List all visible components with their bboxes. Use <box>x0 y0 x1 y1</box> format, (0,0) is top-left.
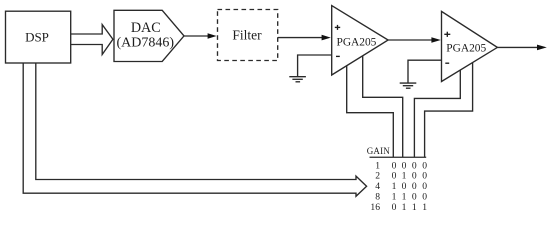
svg-text:1: 1 <box>392 181 397 192</box>
gain wire D <box>425 63 473 158</box>
svg-text:(AD7846): (AD7846) <box>117 36 175 51</box>
svg-text:1: 1 <box>402 171 407 182</box>
ground wire 1 <box>298 55 332 76</box>
svg-text:0: 0 <box>422 181 427 192</box>
svg-text:16: 16 <box>370 202 380 213</box>
svg-text:0: 0 <box>402 160 407 171</box>
DAC box (pentagon) <box>114 10 184 61</box>
gain table row: gain 8 <box>375 192 427 203</box>
ground 2 <box>400 82 417 84</box>
gain wire C <box>414 70 460 157</box>
svg-text:0: 0 <box>412 181 417 192</box>
gain wire A <box>347 66 394 158</box>
svg-text:0: 0 <box>392 160 397 171</box>
svg-text:1: 1 <box>375 160 380 171</box>
filter box (dashed) <box>218 10 278 61</box>
gain table row: gain 4 <box>375 181 427 192</box>
op-amp PGA1 <box>332 6 388 75</box>
wire Filter to PGA1 <box>278 37 323 39</box>
PGA2 plus <box>444 33 450 35</box>
wire DAC to Filter <box>184 35 210 37</box>
svg-text:8: 8 <box>375 192 380 203</box>
output wire <box>497 46 539 48</box>
svg-text:0: 0 <box>412 192 417 203</box>
svg-text:DSP: DSP <box>25 29 49 44</box>
arrowhead Filter to PGA1 <box>322 35 331 41</box>
svg-text:1: 1 <box>392 192 397 203</box>
block arrow DSP to DAC <box>71 25 113 55</box>
svg-text:PGA205: PGA205 <box>446 43 486 55</box>
gain table rule <box>370 156 427 158</box>
DSP box <box>6 11 71 63</box>
svg-text:0: 0 <box>392 202 397 213</box>
output arrowhead <box>537 45 547 51</box>
svg-text:0: 0 <box>412 160 417 171</box>
svg-text:1: 1 <box>412 202 417 213</box>
arrowhead PGA1 to PGA2 <box>431 37 440 43</box>
wire PGA1 to PGA2 <box>388 39 433 41</box>
ground 1 <box>289 76 306 78</box>
gain table row: gain 16 <box>370 202 427 213</box>
op-amp PGA2 <box>442 11 498 81</box>
svg-text:1: 1 <box>422 202 427 213</box>
svg-text:PGA205: PGA205 <box>337 37 377 49</box>
svg-text:0: 0 <box>422 192 427 203</box>
svg-text:1: 1 <box>402 202 407 213</box>
svg-text:Filter: Filter <box>232 28 262 43</box>
svg-text:GAIN: GAIN <box>367 146 391 156</box>
PGA1 plus <box>335 26 340 28</box>
svg-text:0: 0 <box>392 171 397 182</box>
svg-text:1: 1 <box>402 192 407 203</box>
svg-text:0: 0 <box>412 171 417 182</box>
svg-text:DAC: DAC <box>131 20 161 36</box>
arrowhead DAC to Filter <box>208 33 217 38</box>
svg-text:4: 4 <box>375 181 380 192</box>
ground wire 2 <box>408 60 442 82</box>
PGA2 minus <box>445 62 449 64</box>
PGA1 minus <box>336 55 340 57</box>
gain table row: gain 1 <box>375 160 427 171</box>
svg-text:0: 0 <box>402 181 407 192</box>
gain wire B <box>363 56 403 158</box>
svg-text:0: 0 <box>422 171 427 182</box>
bus wire DSP to gain arrow <box>23 63 366 196</box>
svg-text:0: 0 <box>422 160 427 171</box>
gain table row: gain 2 <box>375 171 427 182</box>
svg-text:2: 2 <box>375 171 380 182</box>
